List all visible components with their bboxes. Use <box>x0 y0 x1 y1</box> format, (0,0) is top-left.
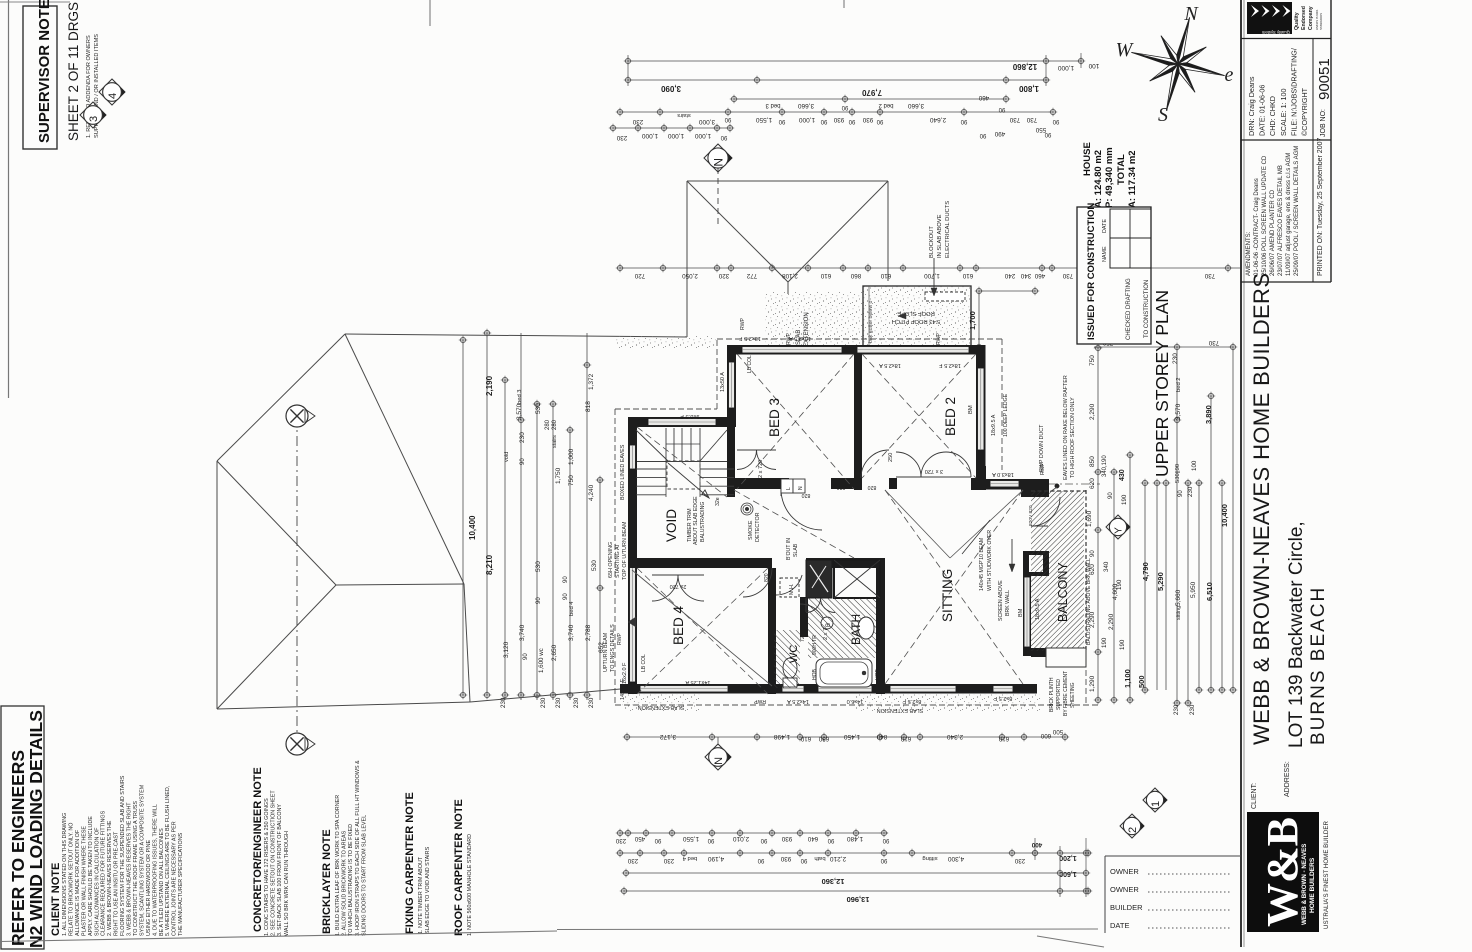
svg-text:2. ALLOW SOLID BRICKWORK TO AR: 2. ALLOW SOLID BRICKWORK TO AREAS <box>342 830 348 936</box>
svg-text:90: 90 <box>841 104 848 110</box>
svg-text:820: 820 <box>764 573 770 582</box>
svg-text:930: 930 <box>862 116 873 123</box>
svg-text:UPPER STOREY PLAN: UPPER STOREY PLAN <box>1152 290 1172 477</box>
svg-text:18x9.5 A: 18x9.5 A <box>991 414 997 436</box>
svg-text:1,600 wc: 1,600 wc <box>538 648 545 673</box>
svg-text:14x2.0 F: 14x2.0 F <box>620 678 626 700</box>
svg-text:BRICK PLINTH: BRICK PLINTH <box>1049 677 1055 712</box>
svg-text:TO CONSTRUCT THE ROOF FRAME US: TO CONSTRUCT THE ROOF FRAME USING A TRUS… <box>133 801 139 936</box>
svg-text:2 x 720: 2 x 720 <box>758 460 764 478</box>
svg-text:ALLOWANCE IS MADE FOR ADDITION: ALLOWANCE IS MADE FOR ADDITION OF <box>75 829 81 936</box>
svg-text:2,340: 2,340 <box>946 733 963 740</box>
svg-text:18x3.0 A: 18x3.0 A <box>992 471 1014 477</box>
svg-text:1,000: 1,000 <box>1057 64 1074 71</box>
svg-text:3,090: 3,090 <box>660 84 681 93</box>
svg-text:M.H.: M.H. <box>789 584 795 595</box>
svg-text:PLASTER OR WALL FINISH WHERE T: PLASTER OR WALL FINISH WHERE THESE <box>81 826 87 936</box>
svg-text:3,890: 3,890 <box>1204 405 1213 424</box>
svg-text:3. SET-BACK SLAB 100 FROM FRON: 3. SET-BACK SLAB 100 FROM FRONT OF BALCO… <box>277 804 283 936</box>
svg-text:STARTING AT: STARTING AT <box>615 543 621 578</box>
svg-text:RWP: RWP <box>786 332 792 345</box>
svg-text:5'43 ROOF PITCH: 5'43 ROOF PITCH <box>892 318 940 324</box>
svg-text:90: 90 <box>1052 118 1059 124</box>
svg-text:26/06/07 AMEND PLANTER CD: 26/06/07 AMEND PLANTER CD <box>1270 189 1276 276</box>
svg-text:230: 230 <box>555 697 562 708</box>
svg-text:3,740: 3,740 <box>568 624 575 641</box>
svg-text:250: 250 <box>888 453 894 462</box>
svg-text:230: 230 <box>615 837 626 844</box>
svg-text:100: 100 <box>1088 62 1099 69</box>
svg-text:VOID: VOID <box>664 509 679 542</box>
svg-text:1: 1 <box>1150 801 1162 807</box>
svg-text:SCALE: 1: 100: SCALE: 1: 100 <box>1279 88 1288 136</box>
svg-text:550: 550 <box>1035 126 1046 133</box>
svg-text:bed 3: bed 3 <box>765 102 781 108</box>
svg-text:STANDARDS: STANDARDS <box>1319 13 1323 30</box>
svg-text:12,360: 12,360 <box>822 877 845 886</box>
svg-text:bath: bath <box>814 855 825 861</box>
svg-text:840: 840 <box>876 733 887 740</box>
svg-text:TO ENGS DETAILS: TO ENGS DETAILS <box>610 624 616 672</box>
svg-text:W: W <box>1116 39 1135 61</box>
svg-text:1,498: 1,498 <box>773 733 790 740</box>
svg-text:BM: BM <box>1018 608 1024 617</box>
svg-text:WEBB & BROWN - NEAVES: WEBB & BROWN - NEAVES <box>1301 844 1308 925</box>
svg-text:652: 652 <box>598 642 605 653</box>
svg-text:230: 230 <box>627 857 638 864</box>
svg-text:100: 100 <box>1191 460 1198 471</box>
svg-text:FIXING CARPENTER NOTE: FIXING CARPENTER NOTE <box>404 792 416 934</box>
svg-text:530: 530 <box>591 560 598 571</box>
svg-text:12,860: 12,860 <box>1012 62 1037 71</box>
svg-text:3,570: 3,570 <box>1175 403 1182 420</box>
svg-text:900H TR: 900H TR <box>812 635 818 655</box>
svg-text:610: 610 <box>962 272 973 279</box>
svg-text:WALL SO BRK WRK CAN RUN THROUG: WALL SO BRK WRK CAN RUN THROUGH <box>284 831 290 936</box>
svg-text:140x45 MGP'10 BEAM: 140x45 MGP'10 BEAM <box>979 538 985 591</box>
svg-text:2,210: 2,210 <box>829 855 846 862</box>
svg-text:Quality: Quality <box>1294 12 1300 30</box>
svg-text:1,750: 1,750 <box>555 467 562 484</box>
svg-text:TO CONSTRUCTION: TO CONSTRUCTION <box>1144 280 1150 338</box>
svg-text:bed 4: bed 4 <box>682 855 697 861</box>
svg-text:1,550: 1,550 <box>682 835 699 842</box>
svg-text:230: 230 <box>519 432 526 443</box>
svg-text:2,640: 2,640 <box>929 116 946 123</box>
svg-text:1,372: 1,372 <box>588 373 595 390</box>
svg-text:SHEET 2 OF 11 DRGS: SHEET 2 OF 11 DRGS <box>66 2 81 141</box>
svg-text:2,290: 2,290 <box>1108 613 1115 630</box>
svg-text:RIGHT TO USE AN INSITU OR PRE: RIGHT TO USE AN INSITU OR PRE-CAST <box>114 831 120 936</box>
svg-text:BRICKLAYER NOTE: BRICKLAYER NOTE <box>321 829 333 934</box>
svg-text:stairs: stairs <box>677 112 691 118</box>
svg-text:14x1.25 A: 14x1.25 A <box>685 679 710 685</box>
svg-text:DRN: Craig Deans: DRN: Craig Deans <box>1247 76 1256 136</box>
svg-text:2,190: 2,190 <box>485 375 494 396</box>
svg-text:bed 4: bed 4 <box>569 601 575 616</box>
svg-text:90: 90 <box>757 857 764 863</box>
svg-text:BLOCKOUT: BLOCKOUT <box>929 226 935 258</box>
svg-text:1,690: 1,690 <box>1086 510 1093 527</box>
svg-text:LOT 139 Backwater Circle,: LOT 139 Backwater Circle, <box>1286 521 1307 748</box>
svg-text:90: 90 <box>1178 490 1184 497</box>
svg-text:230: 230 <box>588 697 595 708</box>
svg-text:2. WEBB & BROWN-NEAVES RESERV: 2. WEBB & BROWN-NEAVES RESERVES THE <box>107 820 113 936</box>
svg-text:750: 750 <box>1089 355 1096 366</box>
svg-text:ABOUT SLAB EDGE: ABOUT SLAB EDGE <box>693 496 699 545</box>
svg-text:13x2.5 F: 13x2.5 F <box>739 335 761 341</box>
svg-text:90: 90 <box>563 576 569 583</box>
svg-text:430: 430 <box>1119 469 1126 481</box>
svg-text:9x8.5 F: 9x8.5 F <box>680 413 700 419</box>
svg-text:190: 190 <box>1116 579 1123 590</box>
svg-text:BALUSTRADING: BALUSTRADING <box>700 502 706 542</box>
svg-text:AMENDMENTS:: AMENDMENTS: <box>1246 231 1252 276</box>
svg-text:530: 530 <box>535 561 542 572</box>
svg-text:DATE: 01-06-06: DATE: 01-06-06 <box>1258 85 1267 136</box>
svg-text:void: void <box>504 452 510 462</box>
svg-text:1. CONC STAIRS TO HAVE 172 RIS: 1. CONC STAIRS TO HAVE 172 RISERS & 250 … <box>264 798 270 936</box>
svg-text:BED 4: BED 4 <box>671 605 686 645</box>
svg-text:10,400: 10,400 <box>1220 504 1229 527</box>
svg-text:640: 640 <box>807 835 818 842</box>
svg-text:90: 90 <box>827 837 834 843</box>
svg-text:BED 2: BED 2 <box>943 397 958 436</box>
svg-text:90: 90 <box>1044 131 1051 137</box>
svg-text:SLAB: SLAB <box>793 543 799 557</box>
svg-text:90: 90 <box>563 593 569 600</box>
svg-text:SUPERVISOR NOTE: SUPERVISOR NOTE <box>36 0 53 143</box>
svg-text:1,100: 1,100 <box>1123 669 1132 688</box>
svg-text:1,450: 1,450 <box>843 733 860 740</box>
svg-text:CLEARANCE REQUIRED FOR FUTURE: CLEARANCE REQUIRED FOR FUTURE FITTINGS <box>101 810 107 936</box>
svg-text:3,660: 3,660 <box>907 102 924 109</box>
svg-text:FILE: N:\JOBS\DRAFTING/: FILE: N:\JOBS\DRAFTING/ <box>1289 48 1298 136</box>
svg-text:190: 190 <box>1121 494 1128 505</box>
svg-text:90: 90 <box>654 837 661 843</box>
svg-text:CHECKED DRAFTING: CHECKED DRAFTING <box>1126 278 1132 340</box>
svg-text:1. NOTE TIMBER TRIM ABOUT: 1. NOTE TIMBER TRIM ABOUT <box>418 856 424 934</box>
svg-text:DETECTOR: DETECTOR <box>755 512 761 542</box>
svg-text:230: 230 <box>616 134 627 141</box>
svg-text:850: 850 <box>1089 456 1096 467</box>
svg-text:3,660: 3,660 <box>797 102 814 109</box>
svg-text:490: 490 <box>994 130 1005 137</box>
svg-text:EAVES LINED ON RAKE BELOW RAF: EAVES LINED ON RAKE BELOW RAFTER <box>1063 375 1069 480</box>
svg-text:3: 3 <box>88 116 100 122</box>
svg-text:90: 90 <box>720 134 727 140</box>
svg-text:11/09/07 adjust garage, ens: 11/09/07 adjust garage, ens & dress c.l.… <box>1286 153 1292 276</box>
svg-text:A: 124.80 m2: A: 124.80 m2 <box>1093 150 1104 208</box>
svg-text:930: 930 <box>781 835 792 842</box>
svg-text:ROOF CARPENTER NOTE: ROOF CARPENTER NOTE <box>453 799 465 936</box>
svg-text:1. NOTE 560x600 MANHOLE STANDA: 1. NOTE 560x600 MANHOLE STANDARD <box>467 834 473 936</box>
svg-text:1,290: 1,290 <box>1089 675 1096 692</box>
svg-text:N: N <box>713 757 725 765</box>
svg-text:PRINTED ON: Tuesday, 25 Sept: PRINTED ON: Tuesday, 25 September 2007 <box>1317 138 1324 276</box>
svg-text:90: 90 <box>523 653 529 660</box>
svg-text:460: 460 <box>1034 272 1045 279</box>
svg-text:BATH: BATH <box>849 614 863 645</box>
svg-text:340: 340 <box>1020 272 1031 279</box>
svg-text:BY FIBRE CEMENT: BY FIBRE CEMENT <box>1063 671 1069 716</box>
svg-text:4: 4 <box>107 93 119 99</box>
svg-text:2,010: 2,010 <box>732 835 749 842</box>
svg-text:450: 450 <box>634 835 645 842</box>
svg-text:730: 730 <box>1208 339 1219 346</box>
svg-text:RWP: RWP <box>617 632 623 645</box>
svg-text:HOB: HOB <box>875 669 881 681</box>
svg-text:stairs: stairs <box>552 435 558 448</box>
svg-text:610: 610 <box>820 272 831 279</box>
svg-text:730: 730 <box>1009 116 1020 123</box>
svg-text:230: 230 <box>1189 704 1196 715</box>
svg-text:CLIENT NOTE: CLIENT NOTE <box>50 863 62 936</box>
svg-text:L: L <box>786 487 792 490</box>
svg-text:14x2.5 A: 14x2.5 A <box>787 698 809 704</box>
svg-text:23/07/07 ALFRESCO EAVES DETA: 23/07/07 ALFRESCO EAVES DETAIL MB <box>1278 165 1284 276</box>
svg-text:65H OPENING: 65H OPENING <box>608 542 614 578</box>
svg-text:610: 610 <box>800 735 811 742</box>
svg-text:1,200: 1,200 <box>1059 854 1077 861</box>
svg-text:SLAB EXTENSION: SLAB EXTENSION <box>877 707 924 713</box>
svg-text:ADDRESS:: ADDRESS: <box>1284 761 1291 797</box>
svg-text:WC: WC <box>788 645 800 663</box>
svg-text:90: 90 <box>960 118 967 124</box>
svg-text:SHEETING: SHEETING <box>1070 682 1076 708</box>
svg-text:3 x 720: 3 x 720 <box>925 468 943 474</box>
svg-text:RELATE TO BRICKWORK SETOUT ONL: RELATE TO BRICKWORK SETOUT ONLY. NO <box>68 823 74 936</box>
svg-text:8,210: 8,210 <box>485 554 494 575</box>
svg-text:3,570: 3,570 <box>516 403 523 420</box>
svg-text:13x2.5 A: 13x2.5 A <box>789 335 811 341</box>
svg-text:N: N <box>1183 3 1199 25</box>
svg-text:240: 240 <box>1004 272 1015 279</box>
svg-text:IN SLAB ABOVE: IN SLAB ABOVE <box>937 214 943 258</box>
svg-text:90: 90 <box>1108 492 1114 499</box>
svg-text:USING EITHER HARDWOOD OR PINE: USING EITHER HARDWOOD OR PINE <box>146 839 152 936</box>
svg-text:230: 230 <box>632 118 643 125</box>
svg-text:90: 90 <box>724 116 731 122</box>
svg-text:Quality System: Quality System <box>1261 30 1290 35</box>
svg-text:7,970: 7,970 <box>861 88 882 97</box>
svg-text:ELECTRICAL DUCTS: ELECTRICAL DUCTS <box>945 201 951 258</box>
svg-text:SCREEN ABOVE: SCREEN ABOVE <box>998 580 1004 621</box>
svg-text:S: S <box>1158 104 1168 126</box>
svg-text:bed 2: bed 2 <box>1176 377 1182 392</box>
svg-text:RWP: RWP <box>740 317 746 330</box>
svg-text:13x50 A: 13x50 A <box>720 372 726 392</box>
svg-text:HOUSE: HOUSE <box>1082 142 1093 176</box>
svg-text:230: 230 <box>1187 486 1194 497</box>
svg-text:820: 820 <box>837 484 846 490</box>
svg-text:230: 230 <box>573 697 580 708</box>
svg-text:1,480: 1,480 <box>846 835 863 842</box>
svg-text:CONTROL JOINTS ARE NECESSARY A: CONTROL JOINTS ARE NECESSARY AS PER <box>172 821 178 936</box>
svg-text:100 DEEP LEDGE: 100 DEEP LEDGE <box>1003 393 1009 437</box>
svg-text:ISSUED FOR CONSTRUCTION: ISSUED FOR CONSTRUCTION <box>1086 203 1097 340</box>
svg-text:FLOORING SYSTEM FOR THE SUSPEN: FLOORING SYSTEM FOR THE SUSPENDED SLAB A… <box>120 775 126 936</box>
svg-text:SMOKE: SMOKE <box>748 520 754 540</box>
svg-text:340: 340 <box>1103 561 1110 572</box>
svg-text:230: 230 <box>663 857 674 864</box>
svg-text:sitting: sitting <box>1176 606 1182 620</box>
svg-text:620: 620 <box>1089 478 1096 489</box>
svg-text:BOXED LINED EAVES: BOXED LINED EAVES <box>620 444 626 500</box>
svg-text:1,000: 1,000 <box>667 132 684 139</box>
svg-text:90: 90 <box>876 118 883 124</box>
svg-text:820: 820 <box>868 484 877 490</box>
svg-text:1,000: 1,000 <box>694 132 711 139</box>
svg-text:3. HOOP IRON STRAPS TO EACH S: 3. HOOP IRON STRAPS TO EACH SIDE OF ALL … <box>355 760 361 936</box>
svg-text:sitting: sitting <box>922 855 937 861</box>
svg-text:90: 90 <box>778 118 785 124</box>
svg-text:4,300: 4,300 <box>947 855 964 862</box>
svg-text:Endorsed: Endorsed <box>1301 6 1307 30</box>
svg-text:RWP: RWP <box>753 698 766 704</box>
svg-text:90: 90 <box>979 132 986 138</box>
svg-text:190: 190 <box>1101 637 1108 648</box>
svg-text:530: 530 <box>535 403 542 414</box>
svg-text:DATE: DATE <box>1102 219 1108 233</box>
svg-text:BED 3: BED 3 <box>767 398 782 437</box>
svg-text:bak gutter below o: bak gutter below o <box>868 300 874 343</box>
svg-text:2: 2 <box>1127 827 1139 833</box>
svg-text:2,650: 2,650 <box>551 644 558 661</box>
svg-text:WEBB & BROWN-NEAVES HOME BUILD: WEBB & BROWN-NEAVES HOME BUILDERS <box>1249 273 1274 745</box>
svg-text:750: 750 <box>568 475 575 486</box>
svg-text:SUPPORTED: SUPPORTED <box>1056 679 1062 710</box>
svg-text:1,000: 1,000 <box>641 132 658 139</box>
svg-text:CLIENT:: CLIENT: <box>1251 783 1258 809</box>
svg-text:3,172: 3,172 <box>659 733 676 740</box>
svg-text:N2 WIND LOADING DETAILS: N2 WIND LOADING DETAILS <box>26 710 46 948</box>
svg-text:3,740: 3,740 <box>519 624 526 641</box>
svg-text:930: 930 <box>780 855 791 862</box>
svg-text:1,700: 1,700 <box>924 272 940 279</box>
svg-text:530||90: 530||90 <box>1175 464 1181 483</box>
svg-text:90: 90 <box>848 118 855 124</box>
svg-text:BALCONY: BALCONY <box>1056 562 1070 622</box>
svg-text:3,120: 3,120 <box>503 641 510 658</box>
svg-text:01-06-06 -CONTRACT- Craig D: 01-06-06 -CONTRACT- Craig Deans <box>1254 178 1260 276</box>
svg-text:LB COL: LB COL <box>747 355 753 373</box>
svg-text:BM: BM <box>968 405 974 414</box>
svg-text:©COPYRIGHT: ©COPYRIGHT <box>1300 87 1309 136</box>
svg-text:818: 818 <box>585 401 592 412</box>
svg-text:BURNS BEACH: BURNS BEACH <box>1308 586 1329 745</box>
svg-text:90: 90 <box>1090 550 1096 557</box>
svg-text:610: 610 <box>880 272 891 279</box>
svg-text:SYSTEM, SCANTLING SYSTEM OR A: SYSTEM, SCANTLING SYSTEM OR A COMPOSITE … <box>139 784 145 936</box>
svg-text:610: 610 <box>998 735 1009 742</box>
svg-text:4,240: 4,240 <box>588 484 595 501</box>
svg-text:SLAB EXTENSION: SLAB EXTENSION <box>638 704 685 710</box>
svg-text:90051: 90051 <box>1316 58 1333 100</box>
svg-text:620: 620 <box>1089 564 1096 575</box>
svg-text:10,400: 10,400 <box>468 515 477 540</box>
svg-text:SLIDING DOORS TO START FROM SL: SLIDING DOORS TO START FROM SLAB LEVEL <box>361 815 367 936</box>
svg-text:90: 90 <box>998 106 1005 112</box>
svg-text:230: 230 <box>500 697 507 708</box>
svg-text:32e: 32e <box>715 497 721 506</box>
svg-text:90: 90 <box>820 118 827 124</box>
svg-text:340,190: 340,190 <box>1102 455 1108 477</box>
svg-text:18x2.5 F: 18x2.5 F <box>939 362 961 368</box>
svg-text:2. SEE CONCRETE SETOUT ON CONS: 2. SEE CONCRETE SETOUT ON CONSTRUCTION S… <box>271 790 277 936</box>
svg-text:1. ALL DIMENSIONS STATED ON TH: 1. ALL DIMENSIONS STATED ON THIS DRAWING <box>62 813 68 936</box>
svg-text:TOTAL: TOTAL <box>1116 154 1127 185</box>
svg-text:TO HIGH ROOF SECTION ONLY: TO HIGH ROOF SECTION ONLY <box>1070 397 1076 478</box>
svg-text:APPLY. CARE SHOULD BE TAKEN T: APPLY. CARE SHOULD BE TAKEN TO INCLUDE <box>88 816 94 936</box>
svg-text:REFER TO ENGINEERS: REFER TO ENGINEERS <box>8 750 28 946</box>
svg-text:2,290: 2,290 <box>1089 611 1096 628</box>
svg-text:25/09/07 POOL / SCREEN WALL: 25/09/07 POOL / SCREEN WALL DETAILS AGM <box>1294 146 1300 276</box>
svg-text:Company: Company <box>1308 6 1314 30</box>
svg-text:HOME BUILDERS: HOME BUILDERS <box>1309 857 1316 913</box>
svg-text:RWP DOWN DUCT: RWP DOWN DUCT <box>1039 424 1045 472</box>
svg-text:W&B: W&B <box>1258 817 1307 927</box>
svg-text:WITH STUDWORK OVER: WITH STUDWORK OVER <box>987 530 993 591</box>
svg-text:90: 90 <box>880 857 887 863</box>
svg-text:OWNER: OWNER <box>1110 885 1139 894</box>
svg-text:280: 280 <box>545 419 551 430</box>
svg-text:730: 730 <box>1204 272 1215 279</box>
svg-text:OWNER: OWNER <box>1110 867 1139 876</box>
svg-text:JOB NO:: JOB NO: <box>1320 109 1327 137</box>
svg-text:500: 500 <box>1052 728 1063 735</box>
svg-text:bed 2: bed 2 <box>878 102 894 108</box>
svg-text:1,000: 1,000 <box>568 448 575 465</box>
svg-text:B'OUT IN: B'OUT IN <box>786 538 792 560</box>
svg-text:930: 930 <box>833 116 844 123</box>
svg-text:90: 90 <box>536 597 542 604</box>
svg-text:230: 230 <box>1014 857 1025 864</box>
svg-text:1,000: 1,000 <box>798 116 815 123</box>
svg-text:N: N <box>711 158 725 167</box>
svg-text:RWP: RWP <box>936 332 942 345</box>
svg-text:5,950: 5,950 <box>1190 581 1197 598</box>
svg-text:LB COL: LB COL <box>641 654 647 672</box>
svg-text:SLAB EDGE TO VOID AND STAIRS: SLAB EDGE TO VOID AND STAIRS <box>425 846 431 934</box>
svg-text:A: 117.34 m2: A: 117.34 m2 <box>1127 150 1138 208</box>
svg-text:3. WEBB & BROWN-NEAVES RESERVE: 3. WEBB & BROWN-NEAVES RESERVES THE RIGH… <box>127 802 133 936</box>
svg-text:e: e <box>1225 64 1234 86</box>
svg-text:2x 720: 2x 720 <box>670 583 687 589</box>
svg-text:Y: Y <box>1114 527 1125 534</box>
svg-text:280: 280 <box>552 419 558 430</box>
svg-text:5,660: 5,660 <box>1175 589 1182 606</box>
svg-text:772: 772 <box>746 272 757 279</box>
svg-text:THE MANUFACTURER SPECIFICATION: THE MANUFACTURER SPECIFICATIONS <box>178 832 184 936</box>
svg-text:18x2.5 A: 18x2.5 A <box>879 362 901 368</box>
svg-text:720: 720 <box>634 272 645 279</box>
svg-text:CONCRETOR/ENGINEER NOTE: CONCRETOR/ENGINEER NOTE <box>252 767 264 932</box>
svg-text:4,790: 4,790 <box>1141 562 1150 581</box>
svg-text:SITTING: SITTING <box>940 569 955 622</box>
svg-text:2,290: 2,290 <box>1089 403 1096 420</box>
svg-text:NAME: NAME <box>1102 246 1108 262</box>
svg-text:N: N <box>798 486 804 490</box>
svg-text:CHD: CHKD: CHD: CHKD <box>1268 96 1277 136</box>
svg-text:13,960: 13,960 <box>847 895 870 904</box>
svg-text:BUILDER: BUILDER <box>1110 903 1143 912</box>
svg-text:4. DUE TO WATERPROOFING ISSUES: 4. DUE TO WATERPROOFING ISSUES, THERE WI… <box>152 804 158 936</box>
svg-text:2,050: 2,050 <box>682 272 698 279</box>
svg-text:90: 90 <box>760 837 767 843</box>
svg-text:DATE: DATE <box>1110 921 1129 930</box>
svg-text:190: 190 <box>1119 639 1126 650</box>
